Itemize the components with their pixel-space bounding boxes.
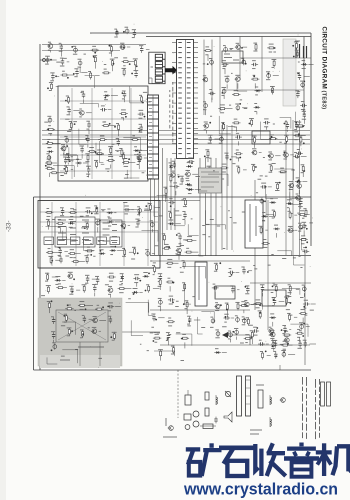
capacitor C21 — [86, 166, 91, 177]
resistor R133 — [303, 208, 307, 216]
resistor R43 — [221, 122, 235, 130]
capacitor C28 — [188, 158, 195, 164]
capacitor C75 — [51, 343, 57, 351]
transistor Q13 — [268, 152, 281, 160]
resistor R23 — [63, 165, 73, 173]
resistor R38 — [272, 59, 277, 67]
capacitor C24 — [80, 146, 85, 159]
diode D13 — [107, 218, 120, 226]
diode D24 — [270, 314, 277, 327]
inductor L22 choke pair — [304, 46, 307, 58]
resistor R65 — [145, 203, 159, 211]
diode D18 — [132, 289, 143, 295]
diode D11 — [107, 209, 117, 217]
resistor R121 — [260, 351, 271, 360]
capacitor C110 — [281, 351, 295, 358]
diode D26 — [301, 61, 314, 69]
resistor R117 — [284, 297, 291, 305]
resistor R88 — [64, 314, 68, 322]
resistor R40 — [232, 91, 240, 96]
capacitor C86 — [210, 317, 215, 324]
page number -33- — [6, 220, 13, 232]
resistor R120 — [299, 310, 307, 323]
wire right lower vertical 3 — [304, 250, 306, 365]
wire vert top-right b — [211, 40, 213, 101]
resistor R8 — [88, 71, 100, 79]
resistor R85 — [65, 304, 73, 309]
transistor Q21 — [288, 182, 294, 190]
capacitor C66 — [133, 275, 141, 287]
wire gray vertical feed 2 — [99, 342, 101, 366]
capacitor C104 — [303, 340, 316, 347]
resistor R33 — [122, 158, 135, 166]
wire centre bundle b3 — [174, 158, 176, 230]
capacitor C25 — [63, 157, 73, 164]
wire centre bundle b1 — [166, 158, 168, 230]
diode D20 — [270, 199, 277, 204]
legend symbol resistor stack — [256, 385, 264, 408]
resistor R115 — [288, 284, 292, 295]
resistor R122 — [235, 302, 239, 310]
watermark crystalradio url — [183, 480, 338, 499]
resistor R132 — [301, 164, 306, 177]
capacitor C29 — [173, 183, 180, 196]
wire right vertical 2 — [303, 37, 305, 116]
diode D5 — [185, 181, 192, 189]
capacitor C20 — [66, 155, 70, 165]
transistor Q28 — [176, 247, 182, 260]
resistor R93 — [166, 259, 179, 267]
wire bus line 4 — [42, 143, 310, 145]
switch bank S1-S6 — [44, 237, 120, 245]
transistor Q12 — [251, 149, 261, 155]
capacitor C30 — [223, 46, 232, 53]
resistor R90 — [80, 330, 84, 338]
capacitor C85 — [245, 286, 250, 294]
transistor Q18 — [92, 317, 106, 323]
capacitor C32 — [222, 61, 229, 74]
transistor Q3 — [79, 109, 92, 117]
diode D22 — [261, 213, 274, 221]
wire right bundle 3 — [231, 125, 233, 250]
resistor R94 — [182, 260, 186, 268]
wire right main vertical — [310, 33, 312, 246]
legend symbol trim cap — [225, 391, 231, 397]
diode D23 — [273, 225, 280, 238]
resistor R100 — [153, 334, 162, 342]
diode D25 — [295, 178, 307, 183]
wire left outer vertical — [33, 197, 35, 370]
watermark crystalradio chinese — [186, 443, 350, 477]
transistor Q4 — [136, 154, 147, 160]
transistor Q9 — [202, 76, 208, 82]
resistor R72 — [122, 248, 134, 256]
diode D16 — [55, 277, 66, 285]
label speckle — [42, 24, 313, 368]
resistor R44 — [232, 119, 240, 132]
resistor R128 — [162, 233, 166, 244]
resistor R76 — [85, 255, 89, 263]
capacitor C41 — [263, 119, 270, 130]
diode D3 — [133, 147, 147, 155]
transistor Q16 — [67, 272, 75, 280]
resistor R126 — [296, 329, 305, 342]
legend tall strip 3 — [321, 382, 325, 406]
capacitor C83 — [212, 284, 219, 298]
resistor R64 — [94, 206, 105, 214]
legend tall strip 4 — [327, 382, 331, 406]
capacitor C57 — [95, 219, 101, 233]
capacitor C103 — [272, 340, 287, 347]
transistor Q11 — [203, 122, 211, 134]
transistor Q7 — [185, 170, 198, 178]
resistor R83 — [145, 284, 160, 292]
resistor R89 — [67, 328, 73, 336]
wire vert top-right c — [219, 37, 221, 113]
capacitor C109 — [273, 351, 277, 358]
resistor R66 — [46, 219, 50, 230]
capacitor C9 — [131, 71, 138, 78]
wire bus line 1 — [42, 130, 310, 132]
box mid-left section — [38, 201, 160, 269]
resistor R56 — [269, 164, 273, 172]
wire lower horizontal c — [250, 282, 311, 284]
diode D12 — [68, 219, 75, 227]
diode D10 — [168, 220, 181, 225]
label IC U1 part number — [170, 82, 173, 142]
resistor R27 — [88, 148, 97, 154]
wire top-left feeder 1 — [42, 44, 146, 46]
diode D14 — [99, 250, 106, 255]
wire right-centre bundle 1 — [199, 158, 201, 256]
arrow display pointer — [165, 66, 177, 75]
capacitor C56 — [137, 207, 150, 215]
capacitor C102 — [258, 340, 269, 346]
wire left vertical bus — [39, 44, 41, 370]
resistor R87 — [95, 305, 104, 310]
capacitor C96 — [302, 285, 306, 297]
capacitor C100 — [281, 326, 292, 334]
capacitor C97 — [272, 298, 284, 306]
capacitor C39 — [203, 102, 208, 115]
wire arrow loop — [222, 332, 250, 345]
capacitor C61 — [145, 250, 155, 257]
resistor R25 — [46, 140, 61, 148]
resistor R24 — [47, 126, 55, 136]
resistor R80 — [56, 284, 67, 289]
capacitor C15 — [86, 121, 90, 134]
capacitor C71 — [51, 317, 55, 324]
wire gray-block feed — [122, 331, 160, 333]
resistor R28 — [108, 146, 120, 154]
resistor R134 — [299, 236, 308, 244]
capacitor C10 — [81, 91, 85, 103]
capacitor C23 — [46, 154, 50, 162]
resistor R101 — [181, 334, 189, 348]
capacitor C116 — [297, 73, 310, 80]
wire vert top-right d — [239, 37, 241, 81]
resistor R47 — [269, 135, 277, 140]
capacitor C95 — [260, 285, 265, 297]
wire lower horizontal b — [160, 344, 310, 346]
resistor R5 — [122, 58, 135, 66]
transistor Q22 — [296, 182, 302, 194]
resistor R21 — [96, 150, 104, 155]
legend symbol speaker — [224, 412, 232, 422]
capacitor C6 — [78, 59, 83, 73]
resistor R131 — [185, 248, 199, 253]
capacitor C36 — [266, 72, 279, 80]
capacitor C111 — [176, 233, 182, 246]
transistor Q26 — [244, 301, 257, 307]
resistor R6 — [133, 59, 138, 72]
capacitor C26 — [137, 157, 142, 170]
resistor R98 — [183, 300, 188, 314]
capacitor C112 — [296, 150, 303, 158]
capacitor C106 — [232, 329, 238, 340]
inductor L21 choke pair — [295, 41, 300, 58]
resistor R124 — [250, 330, 254, 344]
resistor R129 — [186, 237, 197, 242]
box inside gray — [56, 310, 108, 342]
resistor R58 — [168, 174, 172, 182]
transistor Q10 — [235, 75, 241, 89]
wire gray bottom label — [60, 347, 104, 360]
capacitor C99 — [252, 327, 259, 335]
resistor R78 — [107, 273, 115, 281]
capacitor C14 — [138, 110, 146, 118]
capacitor C31 — [207, 59, 214, 66]
resistor R41 — [270, 86, 275, 94]
capacitor C89 — [215, 330, 220, 338]
capacitor C122 — [114, 29, 118, 37]
resistor R32 — [107, 157, 115, 169]
resistor R81 — [82, 284, 87, 292]
wire right bundle 2 — [226, 125, 228, 250]
capacitor C3 — [139, 46, 149, 53]
resistor R59 — [163, 187, 167, 199]
resistor R91 — [110, 332, 116, 340]
resistor R54 — [236, 166, 247, 174]
svg-text:www.crystalradio.cn: www.crystalradio.cn — [183, 480, 338, 499]
capacitor C101 — [299, 323, 310, 331]
capacitor C117 — [300, 81, 305, 89]
resistor R46 — [252, 136, 257, 148]
resistor R86 — [78, 302, 93, 311]
resistor R135 — [292, 42, 298, 50]
svg-text:-33-: -33- — [6, 220, 13, 232]
resistor R99 — [167, 318, 175, 326]
note column 1 — [303, 377, 307, 439]
capacitor C49 — [169, 163, 173, 170]
legend symbol P1 — [185, 390, 191, 405]
wire section divider upper — [34, 196, 312, 198]
wire right upper link — [240, 57, 311, 59]
resistor R111 — [298, 211, 310, 216]
capacitor C84 — [230, 286, 239, 293]
resistor R31 — [94, 160, 104, 168]
legend symbol P3 — [205, 392, 209, 416]
resistor R7 — [61, 71, 75, 79]
wire mid divider — [150, 255, 311, 257]
diode D2 — [47, 148, 54, 162]
resistor R75 — [72, 258, 85, 263]
wire centre bundle b2 — [170, 158, 172, 230]
resistor R48 — [284, 135, 289, 143]
transistor Q2 — [119, 43, 130, 49]
capacitor C114 — [302, 247, 309, 256]
capacitor C53 — [60, 208, 64, 216]
transistor Q27 — [269, 331, 275, 344]
resistor R17 — [114, 123, 120, 136]
wire right-centre bundle 2 — [205, 158, 207, 256]
resistor R49 — [298, 136, 304, 147]
capacitor C18 — [85, 136, 89, 148]
diode D4 — [76, 159, 88, 164]
capacitor C22 — [47, 116, 51, 123]
resistor R73 — [132, 247, 139, 255]
capacitor C43 — [294, 122, 305, 130]
resistor R69 — [46, 249, 60, 254]
transistor Q14 — [283, 151, 294, 159]
capacitor C55 — [124, 206, 134, 214]
capacitor C19 — [116, 139, 120, 146]
wire centre bundle 4 — [162, 148, 164, 255]
capacitor C80 — [166, 333, 170, 346]
transistor Q25 — [284, 336, 290, 346]
transistor Q6 — [170, 171, 180, 177]
capacitor C73 — [108, 316, 112, 323]
capacitor C51 — [169, 199, 176, 207]
resistor R127 — [281, 341, 293, 349]
resistor R37 — [267, 44, 275, 52]
resistor R15 — [69, 121, 76, 129]
capacitor C63 — [85, 275, 99, 283]
resistor R42 — [218, 105, 232, 113]
resistor R82 — [118, 285, 132, 293]
resistor R57 — [279, 168, 287, 173]
wire gray diag 2 — [58, 312, 106, 340]
wire grid mid-left box — [40, 202, 158, 266]
resistor R108 — [275, 182, 281, 191]
resistor R106 — [240, 302, 248, 314]
resistor R34 — [50, 169, 65, 174]
resistor R104 — [214, 262, 221, 271]
box filter F1 — [252, 131, 270, 144]
diode D19 — [214, 349, 227, 354]
wire centre bundle 1 — [150, 148, 152, 255]
resistor R125 — [283, 331, 291, 342]
resistor R103 — [171, 346, 175, 354]
legend tall strip 2 — [246, 376, 251, 416]
capacitor C70 — [107, 303, 121, 311]
wire bottom stub vertical — [177, 370, 179, 418]
capacitor C123 — [123, 27, 129, 34]
capacitor C2 — [71, 46, 77, 54]
label misc values — [41, 49, 314, 361]
wire right lower vertical 2 — [267, 200, 269, 330]
transistor Q17 — [107, 286, 113, 297]
capacitor C118 — [295, 91, 299, 98]
capacitor C11 — [122, 91, 127, 102]
resistor R116 — [254, 300, 262, 308]
transistor Q15 — [120, 222, 130, 229]
box tall narrow U4 — [245, 200, 263, 248]
resistor R51 — [234, 150, 242, 162]
resistor R22 — [121, 153, 125, 165]
wire gray diag 1 — [58, 312, 106, 340]
transistor Q20 — [214, 303, 222, 311]
transistor Q19 — [91, 327, 101, 333]
resistor R118 — [258, 311, 262, 319]
resistor R68 — [84, 222, 89, 230]
transistor Q8 — [235, 43, 247, 49]
legend tall strip 1 — [237, 376, 242, 416]
capacitor C67 — [158, 274, 162, 285]
resistor R10 — [122, 68, 127, 76]
resistor R55 — [251, 164, 257, 172]
wire top bus 1 — [90, 32, 311, 34]
resistor R39 — [251, 75, 259, 88]
resistor R45 — [249, 118, 254, 126]
diode D7 — [254, 104, 261, 115]
capacitor C60 — [58, 247, 68, 255]
capacitor C64 — [95, 276, 99, 284]
resistor R1 — [91, 46, 99, 53]
display DS1 7-segment module — [149, 52, 165, 83]
capacitor C16 — [139, 124, 143, 132]
transistor Q90 pinout legend — [163, 418, 177, 437]
capacitor C62 — [58, 256, 62, 263]
resistor R62 — [45, 209, 53, 217]
box relay K1 — [222, 51, 243, 63]
resistor R84 — [47, 300, 53, 313]
wire right bundle 1 — [221, 125, 223, 250]
resistor R112 — [259, 226, 268, 234]
note column 2 — [316, 379, 320, 439]
capacitor C44 — [208, 135, 222, 143]
resistor R50 — [204, 149, 209, 162]
wire gray vertical feed — [79, 342, 81, 366]
capacitor C77 — [168, 296, 175, 304]
wire bus line 2 — [42, 134, 310, 136]
box hybrid module M1 — [199, 168, 222, 193]
diode D15 — [110, 246, 124, 255]
label relay text — [224, 54, 239, 60]
capacitor C69 — [92, 285, 96, 297]
diode D21 — [286, 200, 293, 212]
capacitor C52 — [182, 212, 186, 225]
capacitor C17 — [64, 136, 69, 148]
svg-text:(TE83): (TE83) — [320, 91, 326, 110]
wire right-centre bundle 3 — [210, 158, 212, 256]
resistor R18 — [98, 136, 106, 141]
box sub-module A — [55, 217, 95, 247]
IC U1 main controller — [172, 40, 198, 159]
capacitor C13 — [100, 106, 111, 112]
wire bottom-left section line — [40, 267, 160, 269]
resistor R92 — [152, 265, 156, 273]
resistor R96 — [166, 278, 174, 291]
capacitor C12 — [67, 107, 80, 115]
connector J1 ladder strip — [148, 95, 159, 179]
capacitor C82 — [241, 267, 252, 274]
capacitor C35 — [225, 76, 230, 88]
wire vert top-right e — [261, 37, 263, 93]
capacitor C92 — [259, 197, 266, 204]
capacitor C68 — [69, 286, 80, 294]
box sub-module B — [100, 220, 122, 247]
